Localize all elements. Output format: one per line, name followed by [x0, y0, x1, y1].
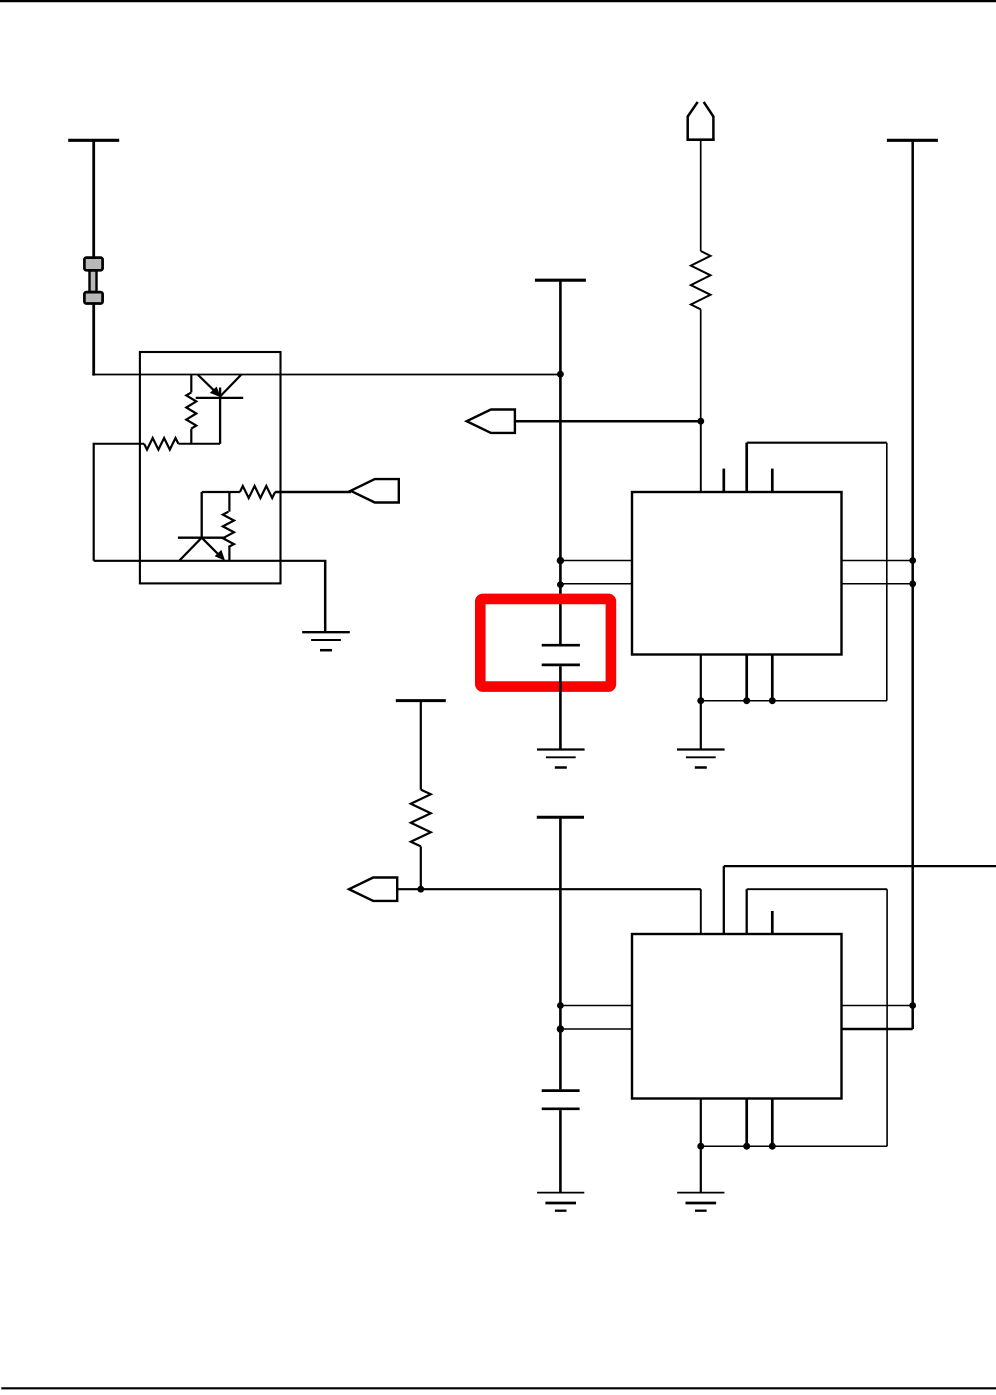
wire: [700, 309, 702, 421]
node junction pin6: [557, 581, 564, 588]
resistor R4: [229, 486, 351, 498]
resistor R6: [691, 251, 711, 309]
resistor R2: [94, 438, 220, 450]
ground: [537, 1193, 584, 1211]
node junction: [697, 1143, 704, 1150]
transistor Q2: [178, 492, 226, 561]
IC U1: [632, 492, 842, 655]
wire loop U2 inner: [701, 889, 887, 1146]
node junction: [769, 1143, 776, 1150]
wire: [515, 420, 701, 423]
wire: [700, 140, 702, 251]
node junction: [909, 557, 916, 564]
node junction pin5: [557, 557, 564, 564]
connector CONN2: [467, 410, 515, 433]
power bar VCC1: [68, 139, 119, 142]
wire loop U1 top: [701, 443, 887, 701]
pin wire left 2: [560, 1028, 632, 1030]
wire center rail upper: [559, 281, 562, 644]
power bar VCC5: [537, 816, 584, 819]
node junction: [743, 697, 750, 704]
ground: [677, 750, 725, 768]
capacitor C2: [542, 1091, 580, 1193]
wire right rail: [911, 141, 914, 1029]
node junction: [909, 1002, 916, 1009]
wire center rail lower: [559, 818, 562, 1089]
pin stub: [771, 911, 774, 934]
wire: [92, 141, 95, 257]
wire pin to U1: [700, 421, 702, 492]
resistor R1: [186, 375, 196, 444]
pin wire left 1: [560, 1005, 632, 1007]
resistor R3: [202, 492, 234, 561]
pin wire right 2: [842, 583, 913, 585]
node A junction: [557, 371, 564, 378]
wire: [420, 701, 422, 790]
node junction: [697, 418, 704, 425]
pin stub: [722, 469, 725, 492]
transistor array box U3: [140, 352, 281, 583]
pin stub bottom: [745, 655, 748, 701]
node junction: [909, 580, 916, 587]
pin wire right 1: [842, 560, 913, 562]
wire to ground: [324, 561, 327, 632]
ground: [537, 750, 585, 768]
wire: [420, 846, 422, 889]
connector CONN4 (up): [686, 102, 714, 140]
node junction: [417, 886, 424, 893]
power bar VCC4: [396, 699, 446, 702]
wire: [92, 305, 95, 376]
node junction: [557, 1002, 564, 1009]
IC U2: [632, 934, 842, 1099]
connector CONN3: [349, 878, 397, 901]
wire emitter rail: [94, 560, 327, 562]
pin stub bottom: [771, 655, 774, 701]
wire loop left: [93, 443, 95, 561]
capacitor C1: [542, 645, 580, 749]
pin wire left 2: [560, 583, 632, 585]
transistor Q1: [196, 375, 244, 444]
pin stub bottom: [745, 1099, 748, 1147]
resistor R7: [411, 790, 431, 847]
ground: [677, 1193, 724, 1211]
node junction: [697, 697, 704, 704]
wire pin to U2: [700, 889, 702, 934]
wire net to node A: [92, 374, 561, 376]
wire U1 gnd pin: [700, 655, 702, 750]
fuse F1: [84, 258, 102, 304]
pin stub: [771, 469, 774, 492]
wire loop U2 outer: [724, 866, 996, 934]
wire: [397, 888, 701, 890]
ground: [302, 632, 350, 650]
highlight box: [480, 599, 611, 687]
power bar VCC3: [887, 139, 938, 142]
node junction: [769, 697, 776, 704]
pin wire left 1: [560, 560, 632, 562]
power bar VCC2: [535, 279, 586, 282]
node junction: [557, 1025, 564, 1032]
node junction: [743, 1143, 750, 1150]
connector CONN1: [351, 479, 399, 502]
wire U2 gnd pin: [700, 1099, 702, 1193]
pin wire right 1: [842, 1005, 913, 1007]
pin stub bottom: [771, 1099, 774, 1147]
